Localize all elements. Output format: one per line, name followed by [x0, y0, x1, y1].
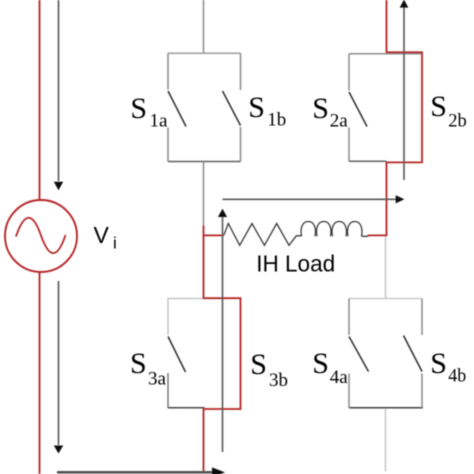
svg-text:V: V: [94, 222, 110, 248]
svg-text:4b: 4b: [448, 366, 466, 387]
svg-text:S: S: [250, 348, 267, 381]
svg-text:S: S: [130, 92, 147, 125]
svg-text:IH Load: IH Load: [256, 251, 335, 277]
svg-text:i: i: [113, 234, 117, 253]
svg-text:3b: 3b: [269, 370, 288, 391]
svg-text:S: S: [130, 347, 147, 380]
svg-text:1b: 1b: [267, 110, 286, 131]
svg-text:4a: 4a: [330, 367, 349, 388]
svg-text:2a: 2a: [330, 111, 349, 132]
svg-text:S: S: [430, 347, 447, 380]
svg-text:S: S: [248, 91, 265, 124]
svg-text:3a: 3a: [148, 369, 167, 390]
svg-text:S: S: [430, 90, 447, 123]
svg-text:S: S: [312, 92, 329, 125]
svg-text:S: S: [312, 347, 329, 380]
svg-text:2b: 2b: [448, 111, 467, 132]
svg-text:1a: 1a: [150, 111, 169, 132]
